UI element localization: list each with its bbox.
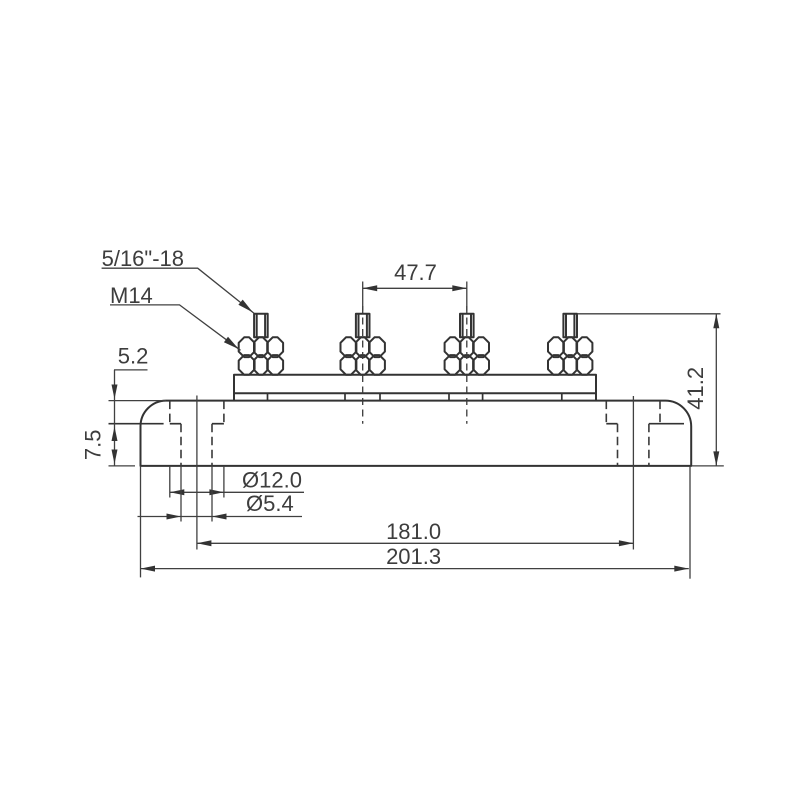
stud 4 threaded post	[563, 314, 577, 338]
right end slot step edge	[649, 423, 684, 425]
base body outline	[141, 401, 692, 466]
stud 2 centerline	[362, 306, 364, 424]
svg-text:Ø5.4: Ø5.4	[246, 491, 294, 516]
stud 4 lower hex nut	[548, 355, 592, 375]
stud 2 lower hex nut	[341, 355, 385, 375]
dimension Ø5.4 through hole	[138, 466, 303, 522]
svg-text:181.0: 181.0	[386, 519, 441, 544]
dimension Ø12.0 counterbore	[170, 466, 304, 498]
right hole counterbore step edge	[606, 423, 617, 425]
stud 1 threaded post	[254, 314, 268, 338]
dimension 181.0 between hole centers	[197, 540, 634, 546]
base top edge extension line toward 5.2 dimension	[109, 400, 167, 402]
stud 3 threaded post	[460, 314, 474, 338]
svg-text:M14: M14	[110, 283, 153, 308]
left hole counterbore step edges	[170, 423, 224, 425]
svg-text:41.2: 41.2	[683, 367, 708, 410]
left hole centerline	[196, 396, 198, 550]
svg-text:7.5: 7.5	[81, 430, 106, 461]
dimension 47.7 between stud 2 and stud 3 centerlines	[363, 282, 467, 311]
svg-text:201.3: 201.3	[386, 544, 441, 569]
right mounting hole hidden lines	[606, 401, 660, 466]
stud 1 upper hex nut	[239, 337, 283, 357]
dimension 41.2 overall height	[577, 314, 724, 466]
stud 4 upper hex nut	[548, 337, 592, 357]
right hole centerline	[632, 396, 634, 550]
bus bar plate	[234, 375, 596, 401]
left end slot step edge	[109, 423, 164, 425]
svg-text:5/16"-18: 5/16"-18	[102, 246, 184, 271]
svg-text:47.7: 47.7	[394, 260, 437, 285]
stud 3 upper hex nut	[445, 337, 489, 357]
stud 1 lower hex nut	[239, 355, 283, 375]
dimension 201.3 overall length	[141, 466, 691, 579]
stud 3 lower hex nut	[445, 355, 489, 375]
svg-text:Ø12.0: Ø12.0	[242, 467, 302, 492]
left mounting hole hidden lines (counterbore Ø12 over Ø5.4)	[170, 401, 224, 466]
standoff pad ticks under plate	[268, 393, 562, 400]
stud 2 threaded post	[356, 314, 370, 338]
stud 3 centerline	[466, 306, 468, 424]
stud 2 upper hex nut	[341, 337, 385, 357]
svg-text:5.2: 5.2	[118, 343, 149, 368]
